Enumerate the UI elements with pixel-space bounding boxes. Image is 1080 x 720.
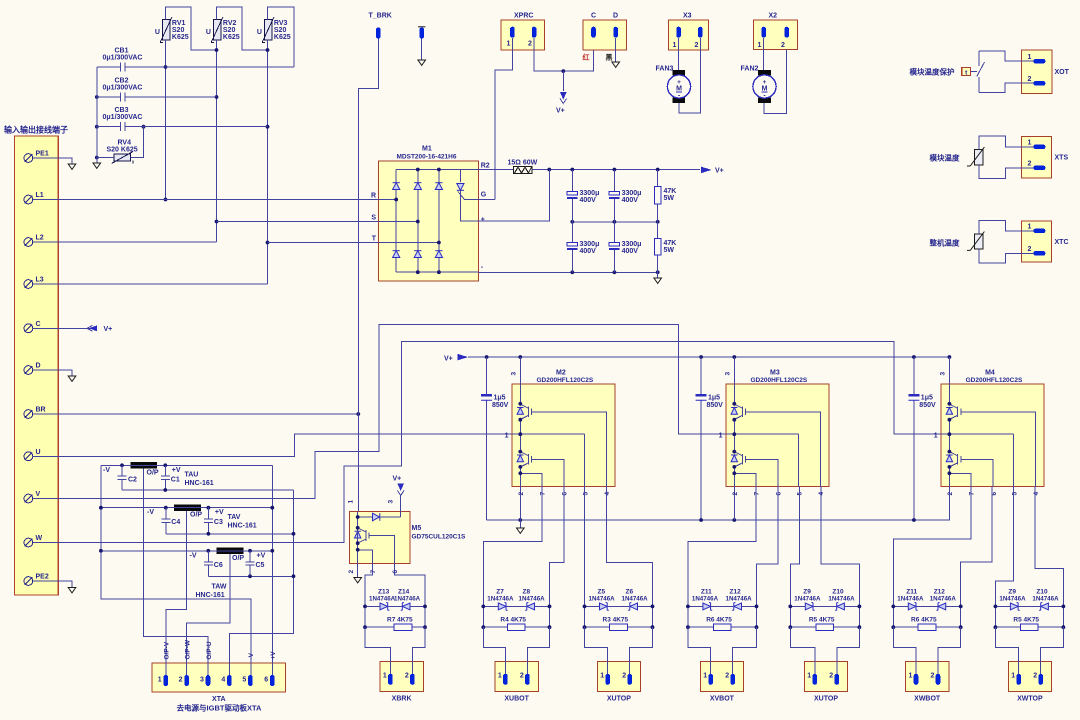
svg-text:Z9: Z9 [803, 589, 811, 596]
M2 top gate wire to pin4 [537, 412, 607, 487]
wire resistor row [585, 626, 653, 628]
wires M2 pins to XUBOT XUTOP networks [483, 487, 652, 607]
svg-text:XUTOP: XUTOP [814, 696, 838, 703]
svg-text:2: 2 [1028, 76, 1032, 83]
wire S row [217, 221, 379, 223]
svg-text:1μ5: 1μ5 [708, 394, 720, 401]
wire L3 [33, 283, 268, 285]
svg-text:1N4746A: 1N4746A [726, 596, 753, 603]
svg-text:3: 3 [200, 677, 204, 684]
M1 top diode D3 [435, 183, 442, 190]
svg-text:RV3: RV3 [274, 20, 288, 27]
svg-text:2: 2 [1028, 161, 1032, 168]
svg-text:XBRK: XBRK [392, 696, 412, 703]
capacitor C bot-right 3300u 400V [613, 222, 615, 272]
varistor RV4 S20 K625 [112, 152, 133, 164]
terminal V [24, 494, 33, 503]
svg-text:X3: X3 [683, 13, 692, 20]
M5 IGBT [355, 528, 375, 543]
resistor R6 4K75 [713, 624, 731, 630]
capacitor 1u5 850V at M3 [700, 357, 702, 520]
svg-text:0μ1/300VAC: 0μ1/300VAC [103, 85, 143, 92]
M2 bottom IGBT [517, 452, 537, 467]
svg-text:GD75CUL120C1S: GD75CUL120C1S [412, 534, 466, 541]
svg-text:6: 6 [392, 570, 399, 574]
wire XPRC pin2 to C [534, 38, 593, 71]
svg-text:1N4746A: 1N4746A [930, 596, 957, 603]
zener Z12 [732, 603, 741, 611]
wire resistor row [893, 626, 960, 628]
wire W phase to M4 pin1 [33, 342, 1014, 543]
terminal PE1 [24, 154, 33, 163]
resistor R5 4K75 [816, 624, 834, 630]
svg-text:1N4746A: 1N4746A [828, 596, 855, 603]
svg-text:U: U [206, 29, 211, 36]
svg-text:2: 2 [1033, 673, 1037, 680]
connector XUTOP [804, 662, 847, 692]
capacitor C top-left 3300u 400V [571, 170, 573, 222]
svg-text:7: 7 [370, 570, 377, 574]
wire left bus [96, 67, 98, 163]
wire CB2 row [97, 96, 217, 98]
M3 bottom gate wire to pin6 [751, 459, 778, 486]
svg-text:K625: K625 [223, 34, 240, 41]
M3 bottom IGBT [731, 452, 751, 467]
svg-text:1μ5: 1μ5 [921, 394, 933, 401]
svg-text:M: M [676, 86, 682, 93]
svg-text:M3: M3 [770, 370, 780, 377]
svg-text:+: + [481, 217, 485, 224]
svg-text:T: T [372, 236, 377, 243]
svg-text:5: 5 [242, 677, 246, 684]
svg-text:V: V [36, 491, 41, 498]
TAV bottom edge wire [166, 533, 294, 535]
svg-text:2: 2 [1028, 246, 1032, 253]
svg-text:1: 1 [498, 673, 502, 680]
svg-text:2: 2 [348, 570, 355, 574]
resistor R3 4K75 [610, 624, 628, 630]
wire RV tops [166, 7, 295, 67]
capacitor C5 [246, 551, 255, 577]
svg-text:去电源与IGBT驱动板XTA: 去电源与IGBT驱动板XTA [177, 703, 262, 713]
svg-text:L1: L1 [36, 192, 44, 199]
svg-text:15Ω 60W: 15Ω 60W [508, 160, 538, 167]
svg-text:G: G [481, 192, 487, 199]
resistor 47K 5W lower [657, 222, 659, 272]
svg-text:2: 2 [518, 492, 525, 496]
M4 bottom gate wire to pin6 [966, 459, 993, 486]
thermal switch t-box [962, 67, 971, 76]
varistor RV2 [211, 17, 223, 42]
wire T row [268, 242, 379, 244]
svg-text:2: 2 [179, 677, 183, 684]
svg-text:850V: 850V [492, 402, 509, 409]
svg-text:2: 2 [528, 41, 532, 48]
M3 column dots [732, 402, 736, 475]
resistor 15R 60W [514, 167, 532, 174]
svg-text:1: 1 [158, 677, 162, 684]
zener Z5 [600, 603, 609, 611]
IGBT module M2 GD200HFL120C2S [512, 384, 615, 487]
svg-text:XUTOP: XUTOP [607, 696, 631, 703]
svg-text:5: 5 [1011, 492, 1018, 496]
wire resistor row [790, 626, 859, 628]
svg-text:3: 3 [511, 372, 518, 376]
wire D terminal to ground [33, 370, 72, 376]
wire PE2 to ground [33, 581, 72, 587]
wire zener row [483, 605, 549, 607]
svg-text:D: D [613, 13, 618, 20]
M3 pin5 column [798, 434, 800, 486]
power port V+ at C [87, 325, 97, 331]
wires M5 pins to XBRK network [365, 563, 425, 606]
power port V+ below C-D [562, 71, 564, 91]
wire sensors +V rail to XTA pin6 [271, 465, 273, 675]
svg-text:400V: 400V [580, 248, 597, 255]
svg-text:2: 2 [695, 42, 699, 49]
svg-text:R6 4K75: R6 4K75 [706, 617, 732, 624]
wire sensors 0V to XTA pin4 [230, 490, 294, 675]
svg-text:K625: K625 [274, 34, 291, 41]
svg-text:R5 4K75: R5 4K75 [809, 617, 835, 624]
M2 collector column [519, 357, 521, 520]
zener Z10 [1039, 603, 1048, 611]
svg-text:XTS: XTS [1055, 155, 1069, 162]
svg-text:O/P-V: O/P-V [164, 641, 171, 659]
connector XWTOP [1008, 662, 1051, 692]
svg-text:1: 1 [600, 673, 604, 680]
svg-text:+V: +V [172, 467, 181, 474]
svg-text:U: U [36, 449, 41, 456]
svg-text:HNC-161: HNC-161 [185, 480, 214, 487]
svg-text:4: 4 [221, 677, 225, 684]
svg-text:1: 1 [703, 673, 707, 680]
svg-text:U: U [155, 29, 160, 36]
M5 emitter wire to pin7 [358, 550, 373, 564]
svg-text:模块温度保护: 模块温度保护 [910, 67, 955, 77]
svg-text:L3: L3 [36, 277, 44, 284]
svg-text:L2: L2 [36, 235, 44, 242]
svg-text:1μ5: 1μ5 [494, 394, 506, 401]
svg-text:RV2: RV2 [223, 20, 237, 27]
TAW bottom edge wire [208, 575, 293, 577]
M3 emitter2 wire to pin7 [734, 473, 756, 486]
port pin grounded [418, 26, 425, 28]
power port V+ top rail [701, 167, 712, 174]
svg-text:GD200HFL120C2S: GD200HFL120C2S [966, 377, 1023, 384]
svg-text:C3: C3 [214, 519, 223, 526]
svg-text:4: 4 [604, 492, 611, 496]
svg-text:1: 1 [673, 42, 677, 49]
svg-text:-V: -V [103, 467, 110, 474]
svg-text:XVBOT: XVBOT [710, 696, 735, 703]
M3 pin1 row [726, 433, 799, 435]
svg-text:TAU: TAU [185, 472, 199, 479]
junction XPRC V+ [561, 69, 565, 73]
svg-text:XTC: XTC [1055, 239, 1069, 246]
svg-text:+V: +V [215, 509, 224, 516]
svg-text:黑: 黑 [606, 53, 613, 62]
network rails [995, 606, 1063, 627]
wire CB1 row [97, 66, 294, 68]
svg-text:X2: X2 [769, 13, 778, 20]
svg-text:GD200HFL120C2S: GD200HFL120C2S [537, 377, 594, 384]
svg-text:TAV: TAV [228, 514, 241, 521]
ground top port [418, 60, 426, 65]
svg-text:O/P-W: O/P-W [184, 639, 191, 659]
connector XUBOT [495, 662, 538, 692]
wire V phase to M3 pin1 [33, 324, 799, 498]
svg-text:1: 1 [505, 433, 509, 440]
resistor R6 4K75 [918, 624, 936, 630]
svg-text:Z12: Z12 [730, 589, 742, 596]
capacitor C4 [161, 508, 170, 534]
svg-text:V+: V+ [556, 108, 565, 115]
svg-text:BR: BR [36, 407, 46, 414]
svg-text:红: 红 [583, 53, 590, 62]
wire D to ground [615, 38, 617, 62]
resistor R5 4K75 [1021, 624, 1039, 630]
M4 emitter2 wire to pin7 [949, 473, 971, 486]
wire resistor row [688, 626, 757, 628]
zener Z6 [628, 603, 637, 611]
terminal C [24, 324, 33, 333]
svg-text:GD200HFL120C2S: GD200HFL120C2S [751, 377, 808, 384]
svg-text:Z9: Z9 [1008, 589, 1016, 596]
svg-text:6: 6 [562, 492, 569, 496]
svg-text:XOT: XOT [1055, 69, 1070, 76]
svg-text:CB1: CB1 [115, 48, 129, 55]
svg-text:Z8: Z8 [523, 589, 531, 596]
svg-text:3: 3 [725, 372, 732, 376]
svg-text:C: C [591, 13, 596, 20]
svg-text:HNC-161: HNC-161 [196, 592, 225, 599]
svg-text:S20 K625: S20 K625 [107, 147, 138, 154]
svg-text:R4 4K75: R4 4K75 [500, 617, 526, 624]
wire X2 to FAN2 [764, 38, 787, 114]
svg-text:R2: R2 [481, 163, 490, 170]
svg-text:-V: -V [190, 552, 197, 559]
svg-text:400V: 400V [622, 197, 639, 204]
ground D connector [612, 62, 620, 67]
svg-text:1: 1 [348, 500, 355, 504]
svg-text:XWTOP: XWTOP [1017, 696, 1043, 703]
wires network to XVBOT [688, 627, 757, 675]
svg-text:XTA: XTA [212, 696, 225, 703]
svg-text:W: W [36, 535, 43, 542]
svg-text:6: 6 [264, 677, 268, 684]
svg-text:M: M [762, 86, 768, 93]
TAV top edge wire [101, 507, 272, 509]
svg-text:1: 1 [909, 673, 913, 680]
svg-text:R5 4K75: R5 4K75 [1013, 617, 1039, 624]
capacitor C bot-left 3300u 400V [571, 222, 573, 272]
zener Z11 [703, 603, 712, 611]
svg-text:400V: 400V [622, 248, 639, 255]
capacitor C1 [161, 465, 170, 490]
varistor RV1 [160, 17, 172, 42]
svg-text:Z6: Z6 [626, 589, 634, 596]
network rails [688, 606, 757, 627]
svg-text:2: 2 [829, 673, 833, 680]
M2 pin5 column [584, 434, 586, 486]
svg-text:T_BRK: T_BRK [369, 13, 392, 20]
M4 collector column [948, 357, 950, 520]
svg-text:S20: S20 [172, 27, 185, 34]
M1 bottom diode D6 [435, 251, 442, 258]
svg-text:D: D [36, 363, 41, 370]
M1 top diode D1 [393, 183, 400, 190]
svg-text:S20: S20 [223, 27, 236, 34]
svg-text:1N4746A: 1N4746A [394, 596, 421, 603]
svg-text:7: 7 [754, 492, 761, 496]
svg-text:C6: C6 [214, 562, 223, 569]
svg-text:-V: -V [248, 652, 255, 659]
svg-text:CB2: CB2 [115, 78, 129, 85]
svg-text:1: 1 [719, 433, 723, 440]
wire zener row [790, 605, 859, 607]
svg-text:Z13: Z13 [378, 589, 390, 596]
junction dots top rail [547, 168, 659, 172]
thermistor module temp [967, 147, 984, 166]
wires network to XBRK [365, 627, 425, 675]
svg-text:1: 1 [507, 41, 511, 48]
M5 gate wire to pin6 [374, 536, 394, 564]
M3 top IGBT [731, 404, 751, 419]
svg-text:1: 1 [807, 673, 811, 680]
svg-text:1N4746A: 1N4746A [519, 596, 546, 603]
svg-text:2: 2 [725, 673, 729, 680]
svg-text:1N4746A: 1N4746A [1032, 596, 1059, 603]
svg-text:R6 4K75: R6 4K75 [911, 617, 937, 624]
svg-text:4: 4 [1033, 492, 1040, 496]
terminal L3 [24, 280, 33, 289]
svg-text:CB3: CB3 [115, 107, 129, 114]
ground left bus [93, 163, 101, 168]
svg-text:1N4746A: 1N4746A [487, 596, 514, 603]
svg-text:2: 2 [520, 673, 524, 680]
svg-text:R: R [371, 193, 376, 200]
XTA pins [164, 675, 169, 686]
wire sensors -V rail to XTA pin5 [101, 465, 251, 675]
wires network to XUTOP [790, 627, 859, 675]
ground M5 emitter [354, 578, 362, 583]
svg-text:Z5: Z5 [598, 589, 606, 596]
svg-text:O/P: O/P [232, 555, 244, 562]
wires network to XUTOP [585, 627, 653, 675]
svg-text:R3 4K75: R3 4K75 [603, 617, 629, 624]
M4 column dots [948, 402, 952, 475]
svg-text:1: 1 [1028, 140, 1032, 147]
capacitor C2 [118, 465, 127, 490]
svg-text:V+: V+ [444, 355, 453, 362]
svg-text:+V: +V [257, 552, 266, 559]
ground PE2 [68, 588, 76, 593]
svg-text:FAN3: FAN3 [656, 66, 674, 73]
svg-text:R7 4K75: R7 4K75 [387, 617, 413, 624]
terminal U [24, 452, 33, 461]
capacitor C3 [204, 508, 213, 534]
svg-text:O/P: O/P [147, 469, 159, 476]
connector XTA [152, 663, 285, 692]
svg-text:47K: 47K [664, 188, 677, 195]
M1 thyristor gate [458, 192, 495, 200]
TAW top edge wire [101, 550, 272, 552]
connector XWBOT [906, 662, 949, 692]
resistor 47K 5W upper [657, 170, 659, 222]
wires M3 pins to XVBOT XVTOP networks [688, 487, 860, 607]
M2 top IGBT [517, 404, 537, 419]
svg-text:MDST200-16-421H6: MDST200-16-421H6 [397, 153, 457, 160]
svg-text:Z14: Z14 [398, 589, 410, 596]
wire RV4 row [97, 127, 144, 158]
svg-text:PE2: PE2 [36, 574, 49, 581]
svg-text:Z7: Z7 [496, 589, 504, 596]
TAU top edge wire [101, 464, 272, 466]
svg-text:1N4746A: 1N4746A [622, 596, 649, 603]
svg-text:1: 1 [758, 42, 762, 49]
M4 pin5 column [1013, 434, 1015, 486]
zener Z13 [380, 603, 389, 611]
svg-text:+V: +V [270, 651, 277, 660]
capacitor 1u5 850V at M4 [913, 357, 915, 520]
network rails [893, 606, 960, 627]
connector XBRK [380, 662, 423, 692]
svg-text:HNC-161: HNC-161 [228, 523, 257, 530]
svg-text:1N4746A: 1N4746A [369, 596, 396, 603]
wire caps mid bus [572, 221, 657, 223]
wire L1 to M1 R [33, 199, 378, 201]
wire V+ rail [468, 356, 949, 358]
M1 bottom diode D4 [393, 251, 400, 258]
svg-text:Z11: Z11 [701, 589, 712, 596]
wire resistor row [995, 626, 1063, 628]
svg-text:O/P-U: O/P-U [206, 641, 213, 659]
wire CB3 row [97, 126, 268, 128]
terminal block 输入输出接线端子 [15, 136, 59, 595]
M2 emitter2 wire to pin7 [520, 473, 542, 486]
zener Z12 [936, 603, 945, 611]
wire XPRC pin1 to M1 gate [495, 38, 513, 200]
wire X3 to FAN3 [679, 38, 701, 113]
svg-text:K625: K625 [172, 34, 189, 41]
wires thermistor to XTC [979, 221, 1034, 263]
svg-text:整机温度: 整机温度 [930, 238, 960, 248]
M4 pin1 row [941, 433, 1014, 435]
terminal D [24, 366, 33, 375]
terminal BR [24, 410, 33, 419]
capacitor CB1 0u1/300VAC [121, 63, 125, 72]
wire PE1 to ground [33, 158, 72, 164]
zener Z8 [525, 603, 534, 611]
svg-text:S20: S20 [274, 27, 287, 34]
connector X3 [668, 20, 708, 50]
capacitor C6 [204, 551, 213, 577]
svg-text:C5: C5 [256, 562, 265, 569]
svg-text:RV4: RV4 [118, 140, 132, 147]
zener Z11 [908, 603, 917, 611]
wire M1 R2 output row [478, 169, 700, 171]
M1 thyristor [459, 170, 461, 183]
svg-text:6: 6 [776, 492, 783, 496]
svg-text:5W: 5W [664, 247, 675, 254]
resistor R4 4K75 [508, 624, 526, 630]
M1 top diode D2 [414, 183, 421, 190]
current sensor TAW HNC-161 [217, 547, 244, 554]
svg-text:1N4746A: 1N4746A [692, 596, 719, 603]
TAU O/P output wire [144, 469, 208, 676]
M4 top gate wire to pin4 [966, 412, 1036, 487]
